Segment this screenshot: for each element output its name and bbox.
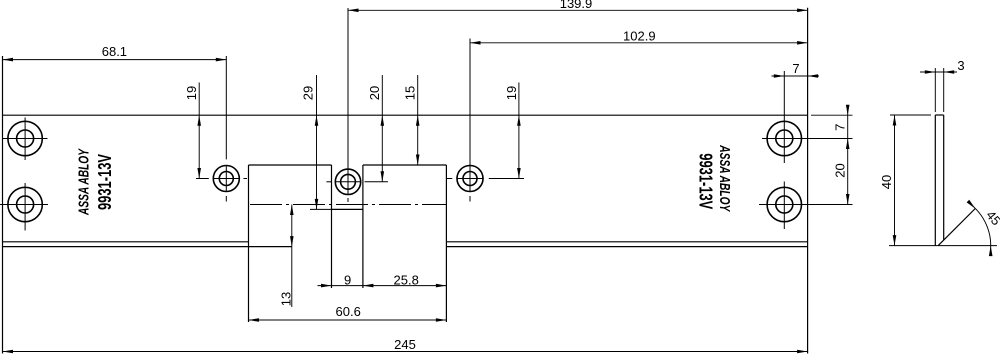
hole mid-right crosshairs with extension up for dim 102.9 and right for dim 19: [446, 39, 524, 202]
hole mid-left inner: [219, 172, 233, 186]
hole bottom-left outer: [8, 187, 42, 221]
svg-text:25.8: 25.8: [394, 272, 419, 287]
svg-text:ASSA ABLOY: ASSA ABLOY: [76, 148, 93, 216]
arrows dim 68.1: [3, 58, 14, 62]
hole top-left inner: [17, 130, 34, 147]
hole mid-left outer: [213, 166, 239, 192]
dim 19 left line: [198, 83, 200, 179]
hole top-right inner: [776, 130, 793, 147]
arrows dim 9: [321, 284, 332, 288]
arrow dim 20 right side: [846, 194, 850, 205]
arrow dim 25.8: [436, 284, 447, 288]
dim 102.9 line: [470, 42, 808, 44]
svg-text:102.9: 102.9: [623, 28, 656, 43]
svg-text:ASSA ABLOY: ASSA ABLOY: [716, 145, 733, 213]
hole bottom-right vertical crosshair: [783, 182, 785, 230]
arrows dim 20 top: [381, 115, 385, 126]
hole centre outer: [335, 169, 360, 194]
extension line at plate bottom for dim 13: [249, 246, 292, 248]
arrows dim 29: [315, 115, 319, 126]
hole centre crosshairs with extension up for dim 139.9 and right for dim 20: [326, 8, 388, 202]
svg-text:20: 20: [832, 163, 847, 177]
plate bottom edge right segment: [446, 246, 807, 248]
dim 19 right line: [518, 83, 520, 179]
svg-text:15: 15: [403, 86, 418, 100]
dim 7 and 20 right side line: [847, 107, 849, 205]
keeper box right edge plus extension: [445, 165, 447, 322]
hole bottom-right outer: [767, 187, 801, 221]
svg-text:9931-13V: 9931-13V: [95, 154, 115, 210]
centerline left hole crosshair: [0, 204, 48, 206]
arrow angle 45 at lip: [967, 200, 976, 209]
dim 20 top line: [381, 75, 383, 182]
side view strip top edge: [935, 114, 943, 116]
hole mid-right outer: [457, 166, 483, 192]
dim 15 line: [417, 75, 419, 165]
svg-text:7: 7: [792, 61, 799, 76]
dim 60.6 line: [249, 319, 447, 321]
plate bottom edge left segment: [3, 246, 249, 248]
arrows dim 3 outside: [925, 70, 936, 74]
arrows dim 102.9: [470, 41, 481, 45]
svg-text:3: 3: [957, 58, 964, 73]
keeper box top edge left part: [249, 164, 332, 166]
dim 9 and 25.8 line: [318, 285, 447, 287]
dim 13 line: [291, 205, 293, 308]
dim 29 extension at tab bottom: [310, 208, 332, 210]
svg-text:245: 245: [394, 337, 416, 352]
dim 3 extension lines: [934, 68, 936, 112]
dim 139.9 line: [348, 9, 808, 11]
arrows dim 19 right: [517, 115, 521, 126]
keeper box left edge plus extension: [248, 165, 250, 322]
side view profile: [935, 115, 975, 246]
plate bend line right segment: [446, 241, 807, 243]
svg-text:45°: 45°: [983, 208, 1000, 233]
tab bottom edge: [332, 208, 363, 210]
tab right edge plus extension: [362, 165, 364, 288]
plate left edge with extension lines: [2, 56, 4, 354]
angle 45 arc: [968, 202, 991, 255]
svg-text:7: 7: [832, 124, 847, 131]
arrows dim 15: [416, 115, 420, 126]
tab left edge plus extension: [331, 165, 333, 288]
hole bottom-left vertical crosshair: [24, 183, 26, 231]
svg-text:13: 13: [278, 292, 293, 306]
hole bottom-right inner: [776, 196, 793, 213]
arrows dim 19 left: [197, 115, 201, 126]
hole mid-right inner: [463, 172, 477, 186]
dim 245 line: [3, 351, 808, 353]
hole mid-left crosshairs with extension up for dim 68.1 and left for dim 19: [196, 56, 247, 202]
centerline dash-dot through keeper: [250, 204, 446, 206]
hole bottom-left inner: [17, 196, 34, 213]
hole top-right outer: [767, 121, 801, 155]
hole top-left outer: [8, 121, 42, 155]
side view baseline with extensions: [889, 245, 997, 247]
plate bend line left segment: [3, 241, 249, 243]
svg-text:29: 29: [301, 86, 316, 100]
side view 45 degree lip: [938, 209, 975, 246]
plate right edge with extension lines: [807, 8, 809, 354]
arrows dim 245: [3, 350, 14, 354]
dim 3 line: [920, 71, 957, 73]
dim 40 line: [894, 115, 896, 246]
side view strip left edge: [934, 115, 936, 246]
svg-text:139.9: 139.9: [560, 0, 593, 11]
keeper box top edge right part: [363, 164, 447, 166]
side view strip right edge: [943, 115, 945, 240]
hole top-left crosshairs: [3, 118, 48, 161]
extension from plate top right corner for dim 7: [811, 114, 853, 116]
svg-text:68.1: 68.1: [102, 44, 127, 59]
centerline right hole crosshair with extension: [759, 204, 853, 206]
arrows dim 7 top outside: [774, 74, 785, 78]
dim 7 top line: [772, 75, 820, 77]
arrow angle 45 at baseline: [989, 246, 993, 257]
arrows dim 13: [290, 205, 294, 216]
dim 29 line: [316, 75, 318, 209]
plate top edge: [3, 114, 808, 116]
arrows dim 139.9: [348, 9, 359, 13]
svg-text:40: 40: [879, 175, 894, 189]
svg-text:20: 20: [367, 86, 382, 100]
arrows dim 40: [893, 115, 897, 126]
arrows dim 60.6: [249, 318, 260, 322]
arrows dim 7 right side outside: [846, 105, 850, 116]
dim 40 extension at top: [890, 114, 931, 116]
svg-text:60.6: 60.6: [336, 304, 361, 319]
svg-text:19: 19: [184, 86, 199, 100]
svg-text:9931-13V: 9931-13V: [696, 153, 716, 209]
svg-text:19: 19: [504, 86, 519, 100]
svg-text:9: 9: [344, 272, 351, 287]
hole centre inner: [341, 174, 356, 189]
dim 68.1 line: [3, 59, 227, 61]
hole top-right crosshairs with extension up for dim 7 and right for dims 7,20: [762, 71, 853, 163]
